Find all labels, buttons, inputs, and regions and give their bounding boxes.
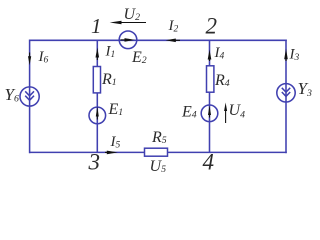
resistor R1 bbox=[93, 67, 116, 93]
resistor R5 bbox=[145, 129, 168, 156]
current arrow I5 bbox=[105, 134, 121, 154]
wire top (node1-node2 top rail) bbox=[29, 39, 287, 41]
svg-text:R4: R4 bbox=[214, 72, 230, 89]
svg-text:I6: I6 bbox=[38, 49, 49, 65]
current arrow I2 bbox=[166, 18, 181, 42]
svg-text:U5: U5 bbox=[150, 158, 167, 175]
current source Y3 bbox=[277, 79, 312, 102]
svg-text:3: 3 bbox=[88, 150, 101, 175]
svg-text:I4: I4 bbox=[214, 45, 225, 61]
voltage arrow U2 bbox=[110, 6, 146, 24]
svg-text:E2: E2 bbox=[131, 49, 147, 66]
current source Y6 bbox=[5, 85, 40, 106]
current arrow I4 bbox=[208, 45, 225, 61]
current arrow I3 bbox=[284, 47, 299, 63]
voltage source E4 bbox=[181, 104, 218, 122]
wire middle branch B (node2-node4) bbox=[209, 40, 211, 152]
svg-text:E4: E4 bbox=[181, 104, 197, 121]
voltage source E2 bbox=[119, 31, 147, 66]
svg-text:U4: U4 bbox=[229, 102, 246, 120]
svg-text:2: 2 bbox=[206, 14, 218, 39]
svg-text:I1: I1 bbox=[105, 44, 116, 60]
current arrow I6 bbox=[28, 49, 49, 65]
svg-text:Y6: Y6 bbox=[5, 85, 19, 105]
current arrow I1 bbox=[96, 44, 116, 61]
resistor R4 bbox=[207, 66, 230, 92]
svg-text:R5: R5 bbox=[151, 129, 167, 146]
wire left branch bbox=[29, 40, 31, 154]
svg-text:U2: U2 bbox=[124, 6, 141, 23]
svg-text:1: 1 bbox=[91, 14, 102, 38]
voltage arrow U4 bbox=[224, 102, 245, 123]
svg-text:Y3: Y3 bbox=[298, 79, 312, 99]
svg-text:I3: I3 bbox=[289, 47, 300, 63]
svg-text:R1: R1 bbox=[101, 71, 117, 88]
wire bottom (node3-node4 bottom rail) bbox=[29, 151, 287, 153]
wire right branch bbox=[285, 40, 287, 154]
svg-text:I5: I5 bbox=[110, 134, 121, 150]
svg-text:E1: E1 bbox=[108, 101, 124, 118]
wire middle branch A (node1-node3) bbox=[96, 40, 98, 152]
voltage source E1 bbox=[89, 101, 123, 124]
svg-text:I2: I2 bbox=[168, 18, 179, 34]
svg-text:4: 4 bbox=[203, 149, 215, 174]
